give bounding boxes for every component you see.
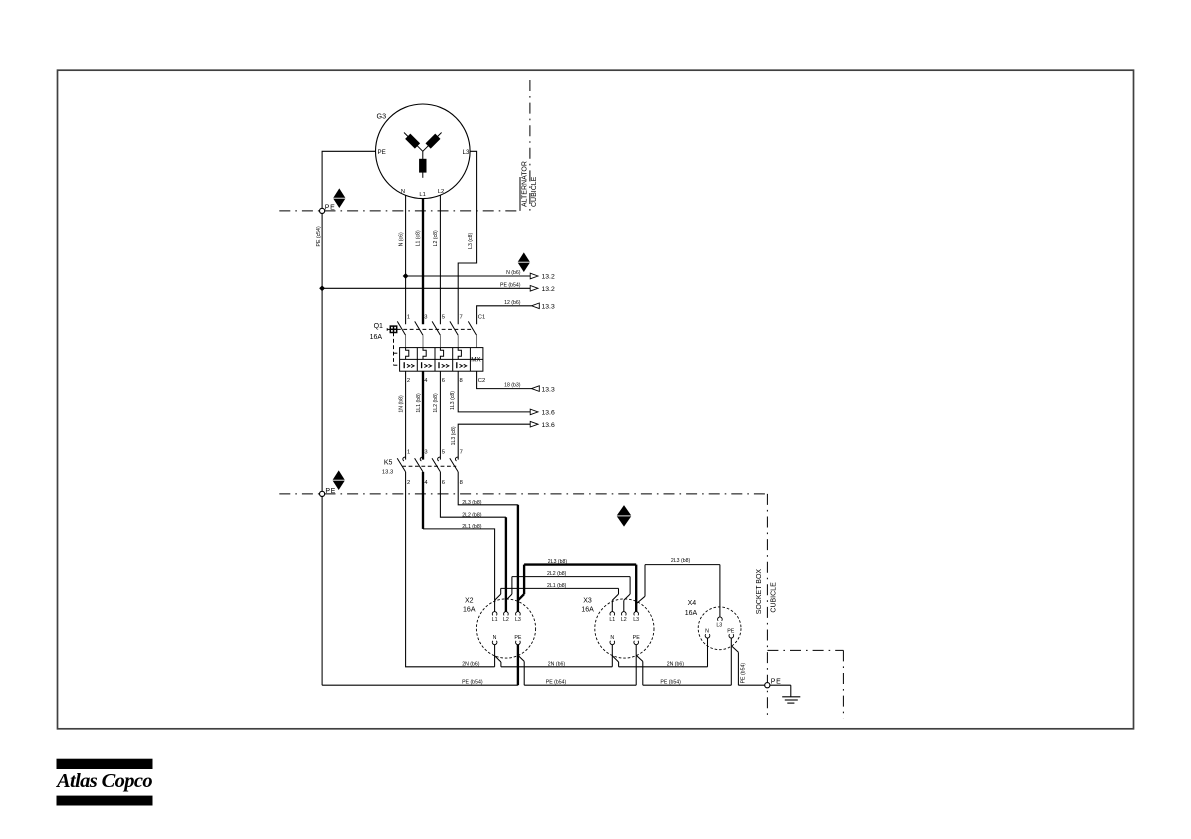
junction on PE wire	[319, 285, 325, 291]
cubicle boundary ALTERNATOR CUBICLE	[279, 80, 538, 211]
svg-text:L2: L2	[621, 617, 627, 623]
bus 2L2 (b8) X2 to X3	[506, 577, 630, 612]
wire X4 PE to PE rail	[731, 638, 738, 685]
svg-text:4: 4	[424, 378, 428, 384]
svg-text:2L3 (b8): 2L3 (b8)	[462, 500, 482, 506]
svg-text:PE (b54): PE (b54)	[546, 679, 567, 685]
wire 1L3 (c8) to sheet 13.6	[458, 371, 555, 416]
svg-text:2: 2	[407, 480, 410, 486]
svg-text:2L3 (b8): 2L3 (b8)	[548, 559, 568, 565]
svg-text:1L1 (b8): 1L1 (b8)	[416, 393, 422, 413]
node PE terminal	[765, 683, 770, 688]
wire 2N (b6) K5 to bus	[406, 472, 495, 667]
cubicle boundary SOCKET BOX CUBICLE	[756, 494, 844, 719]
socket X2 16A	[463, 598, 536, 659]
wire X3 PE to PE rail	[636, 644, 643, 685]
rail PE (b54)	[322, 684, 791, 686]
wire 12 (b6) from sheet 13.3 to Q1 C1	[477, 300, 555, 325]
svg-text:N: N	[493, 635, 497, 641]
svg-text:PE: PE	[325, 205, 336, 212]
svg-text:X3: X3	[583, 598, 592, 605]
svg-text:L1: L1	[609, 617, 615, 623]
wire 2L2 (b8) staircase	[440, 472, 506, 517]
svg-text:L3: L3	[633, 617, 639, 623]
svg-text:L2 (c8): L2 (c8)	[433, 230, 439, 246]
wire X3 N to 2N bus	[612, 644, 618, 666]
wire 1N (b8)	[405, 371, 407, 459]
svg-text:5: 5	[442, 315, 445, 321]
bus 2L3 (b8) X3 to X4	[636, 565, 720, 618]
svg-text:16A: 16A	[581, 607, 594, 614]
svg-text:PE: PE	[514, 635, 522, 641]
ground	[782, 685, 800, 703]
wire 1L3 (c8) from sheet 13.6 to K5	[458, 421, 555, 459]
wire 2L1 (b8) thick upper	[422, 472, 424, 529]
svg-text:L2: L2	[438, 189, 444, 195]
svg-text:2L1 (b8): 2L1 (b8)	[547, 583, 567, 589]
wire 1L2 (b8)	[439, 371, 441, 459]
svg-text:G3: G3	[377, 111, 387, 120]
svg-text:Q1: Q1	[374, 323, 383, 330]
svg-text:1L2 (b8): 1L2 (b8)	[433, 393, 439, 413]
svg-text:SOCKET BOX: SOCKET BOX	[756, 569, 763, 615]
wire L2 (c8)	[439, 195, 441, 324]
svg-text:13.2: 13.2	[542, 286, 555, 293]
svg-text:L3 (c8): L3 (c8)	[468, 232, 474, 248]
drawing frame	[58, 70, 1134, 729]
svg-text:2: 2	[407, 378, 410, 384]
wire X4 N to 2N bus	[707, 638, 709, 667]
svg-text:12 (b6): 12 (b6)	[504, 300, 521, 306]
svg-text:3: 3	[424, 449, 427, 455]
wire N (c6)	[405, 195, 407, 324]
svg-text:7: 7	[460, 449, 463, 455]
wire 18 (b3) from Q1 C2 to sheet 13.3	[477, 371, 555, 393]
svg-text:1: 1	[407, 315, 410, 321]
svg-text:13.6: 13.6	[542, 422, 555, 429]
svg-text:13.6: 13.6	[542, 410, 555, 417]
svg-text:13.2: 13.2	[542, 274, 555, 281]
svg-text:PE: PE	[727, 628, 735, 634]
wire X2 N to 2N bus	[495, 644, 501, 666]
svg-text:L3: L3	[716, 622, 722, 628]
svg-text:PE (b54): PE (b54)	[500, 282, 521, 288]
svg-text:16A: 16A	[685, 610, 698, 617]
svg-text:L1: L1	[419, 192, 425, 198]
svg-text:13.3: 13.3	[542, 304, 555, 311]
cubicle boundary dash-dot line	[279, 493, 767, 495]
svg-text:N (c6): N (c6)	[398, 232, 404, 246]
svg-text:CUBICLE: CUBICLE	[531, 176, 538, 207]
svg-text:6: 6	[442, 378, 445, 384]
contactor K5 13.3	[382, 449, 463, 485]
svg-text:1L3 (c8): 1L3 (c8)	[450, 391, 456, 410]
wire PE (b54) to sheet 13.2	[322, 282, 555, 293]
svg-text:PE (b54): PE (b54)	[660, 679, 681, 685]
node PE crossing 1	[320, 208, 325, 213]
svg-text:13.3: 13.3	[382, 469, 393, 475]
svg-text:PE (b54): PE (b54)	[740, 663, 746, 684]
svg-text:X4: X4	[688, 600, 697, 607]
svg-text:18 (b3): 18 (b3)	[504, 383, 521, 389]
PE flag diamond 1	[333, 188, 346, 208]
svg-text:PE: PE	[771, 679, 782, 686]
wire X2 PE to PE rail thick	[518, 644, 524, 685]
svg-text:K5: K5	[384, 459, 393, 466]
svg-text:16A: 16A	[370, 334, 383, 341]
Atlas Copco logo	[55, 759, 153, 806]
svg-text:2L1 (b8): 2L1 (b8)	[462, 524, 482, 530]
wire 2L3 (b8) staircase	[458, 472, 518, 505]
svg-text:2N (b6): 2N (b6)	[667, 661, 685, 667]
svg-text:L1 (c8): L1 (c8)	[415, 230, 421, 246]
svg-text:16A: 16A	[463, 607, 476, 614]
wire L1 (c8) thick	[422, 199, 424, 325]
svg-text:6: 6	[442, 480, 445, 486]
socket X4 16A	[685, 600, 741, 650]
svg-text:N: N	[401, 189, 405, 195]
svg-text:X2: X2	[465, 598, 474, 605]
svg-text:2L3 (b8): 2L3 (b8)	[671, 558, 691, 564]
svg-text:PE: PE	[325, 488, 336, 495]
PE flag diamond socket box	[617, 505, 632, 527]
svg-text:PE: PE	[378, 149, 386, 156]
svg-text:PE (c54): PE (c54)	[316, 226, 322, 246]
svg-text:L3: L3	[463, 149, 470, 156]
wire 1L1 (b8) thick	[422, 371, 424, 459]
PE flag diamond above N arrow	[518, 252, 531, 272]
svg-text:C1: C1	[478, 315, 485, 321]
svg-text:2N (b6): 2N (b6)	[462, 661, 480, 667]
bus 2L3 (b8) X2 to X3 thick	[518, 565, 636, 612]
svg-text:C2: C2	[478, 378, 485, 384]
svg-text:1: 1	[407, 449, 410, 455]
svg-text:PE (b54): PE (b54)	[462, 679, 483, 685]
svg-text:1N (b8): 1N (b8)	[398, 395, 404, 413]
svg-text:L1: L1	[492, 617, 498, 623]
svg-text:MX: MX	[471, 356, 481, 363]
socket X3 16A	[581, 598, 654, 659]
svg-text:1L3 (c8): 1L3 (c8)	[451, 426, 457, 445]
svg-text:2L2 (b8): 2L2 (b8)	[462, 513, 482, 519]
svg-text:4: 4	[424, 480, 428, 486]
svg-text:8: 8	[460, 480, 463, 486]
circuit breaker Q1 16A	[370, 315, 486, 385]
wire L3 (c8) from G3 to Q1 pole 7	[458, 151, 476, 324]
svg-text:13.3: 13.3	[542, 386, 555, 393]
svg-text:8: 8	[460, 378, 463, 384]
svg-text:ALTERNATOR: ALTERNATOR	[521, 161, 528, 207]
bus 2N (b6)	[501, 666, 708, 668]
junction on N wire	[403, 273, 409, 279]
svg-text:2L2 (b8): 2L2 (b8)	[547, 571, 567, 577]
svg-text:7: 7	[460, 315, 463, 321]
svg-text:L3: L3	[515, 617, 521, 623]
svg-text:PE: PE	[633, 635, 641, 641]
svg-text:CUBICLE: CUBICLE	[770, 582, 777, 613]
svg-text:L2: L2	[503, 617, 509, 623]
svg-text:2N (b6): 2N (b6)	[548, 661, 566, 667]
wire 2L1 (b8) staircase	[423, 529, 495, 612]
svg-text:5: 5	[442, 449, 445, 455]
svg-text:Atlas Copco: Atlas Copco	[55, 771, 153, 792]
svg-text:N: N	[705, 628, 709, 634]
wire N (b6) to sheet 13.2	[406, 270, 555, 281]
svg-text:N (b6): N (b6)	[506, 270, 521, 276]
wire PE (c54) from G3 to PE rail	[322, 151, 375, 685]
node PE crossing 2	[320, 491, 325, 496]
generator G3	[376, 104, 471, 199]
bus 2L1 (b8) X2 to X3	[495, 588, 619, 611]
svg-text:3: 3	[424, 315, 427, 321]
PE flag diamond 2	[332, 470, 345, 490]
svg-text:N: N	[610, 635, 614, 641]
